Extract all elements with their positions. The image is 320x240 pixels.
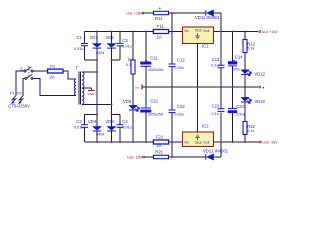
wire IC2 gnd pin (197, 87, 199, 132)
svg-text:IC1: IC1 (202, 44, 209, 49)
wire R21 to VD21 (169, 156, 206, 158)
svg-text:VD2: VD2 (106, 35, 115, 40)
resistor R21 (145, 149, 169, 158)
svg-text:VD3: VD3 (106, 119, 115, 124)
regulator IC1 7815 (183, 27, 214, 49)
capacitor C1 (74, 32, 88, 61)
port Uo2 -15V (259, 141, 261, 143)
wire F1 to transformer primary top (63, 71, 76, 79)
diode VD1 (90, 32, 102, 127)
transformer T (74, 65, 84, 104)
svg-text:0.01u: 0.01u (74, 47, 84, 51)
port Uo1 +15V (259, 31, 261, 33)
wire P1 to switch (16, 71, 24, 96)
wire seg VD3-C4 (112, 114, 121, 116)
wire R11 to VD11 (169, 12, 206, 14)
svg-text:C12: C12 (177, 58, 185, 63)
svg-text:Vout: Vout (203, 141, 209, 145)
svg-text:C2: C2 (76, 119, 82, 124)
svg-text:T: T (76, 65, 79, 70)
svg-text:5404: 5404 (96, 133, 104, 137)
capacitor C11 (141, 32, 165, 88)
capacitor C14 (228, 32, 243, 88)
port mid right (259, 86, 261, 88)
svg-text:Ua1 +18V: Ua1 +18V (126, 11, 143, 15)
resistor R1 (126, 32, 135, 106)
svg-text:VD4: VD4 (88, 119, 97, 124)
svg-text:0.33u: 0.33u (175, 66, 185, 70)
svg-text:2A: 2A (157, 143, 162, 148)
connector P1 (10, 91, 16, 104)
svg-text:0.01u: 0.01u (74, 125, 84, 129)
connector P2 (17, 91, 23, 104)
capacitor C3 (117, 32, 132, 61)
wire seg VD2-C3 (112, 59, 121, 61)
svg-text:5.1k: 5.1k (247, 47, 254, 51)
diode VD11 (195, 10, 221, 20)
svg-text:C11: C11 (150, 55, 158, 60)
svg-text:Vout: Vout (203, 29, 209, 33)
regulator IC2 7915 (183, 124, 214, 147)
svg-text:C21: C21 (150, 99, 158, 104)
ground at center tap (88, 88, 95, 96)
wire top rail (85, 31, 183, 33)
svg-text:F11: F11 (157, 24, 165, 29)
wire VD11 corner down (220, 13, 222, 66)
svg-text:C1: C1 (76, 35, 82, 40)
svg-text:VD11 IN4001: VD11 IN4001 (195, 15, 221, 20)
svg-text:IC2: IC2 (202, 124, 209, 129)
diode VD2 (106, 32, 116, 127)
diode VD3 (106, 119, 116, 142)
wire switch pole1 to F1 (33, 70, 48, 72)
wire secondary bottom to VD3 column (82, 103, 112, 105)
LED VD22 (241, 87, 266, 122)
wire P2 to switch (23, 78, 25, 95)
svg-text:C3: C3 (122, 38, 128, 43)
capacitor C23 (212, 104, 225, 117)
svg-text:7815: 7815 (195, 29, 202, 33)
svg-text:Uo2 -15V: Uo2 -15V (262, 141, 278, 145)
wire seg C1-VD1 (85, 59, 98, 61)
capacitor C12 (169, 58, 186, 110)
capacitor C22 (169, 104, 186, 157)
svg-text:F21: F21 (156, 135, 164, 140)
svg-text:out: out (135, 85, 139, 89)
svg-text:Uo1 +15V: Uo1 +15V (262, 30, 279, 34)
svg-text:VD12: VD12 (255, 72, 266, 77)
svg-text:5.1k: 5.1k (247, 129, 254, 133)
wire IC1 gnd pin (197, 44, 199, 88)
fuse F1 (48, 64, 63, 79)
svg-text:0.01u: 0.01u (122, 125, 132, 129)
fuse F21 (153, 135, 168, 149)
svg-text:0.01u: 0.01u (122, 44, 132, 48)
svg-text:VD22: VD22 (255, 99, 266, 104)
fuse F11 (153, 24, 168, 40)
wire output rail bottom (214, 141, 260, 143)
svg-text:CT5A/250V: CT5A/250V (8, 103, 30, 108)
capacitor C4 (117, 115, 132, 143)
diode VD4 (88, 119, 101, 142)
wire secondary top to VD1 column (82, 71, 97, 73)
resistor R11 (144, 8, 169, 21)
svg-text:2200u/5A: 2200u/5A (148, 68, 164, 72)
switch S (20, 66, 33, 79)
LED VD12 (241, 70, 266, 87)
svg-text:2A: 2A (50, 75, 55, 80)
svg-text:VD21 IN4001: VD21 IN4001 (203, 149, 229, 154)
LED VD5 (123, 99, 139, 142)
wire secondary center tap (82, 87, 92, 89)
svg-text:C4: C4 (122, 119, 128, 124)
capacitor C13 (211, 32, 224, 109)
svg-text:R11: R11 (155, 16, 163, 21)
svg-text:P2: P2 (17, 91, 22, 96)
svg-text:100u: 100u (236, 112, 244, 116)
svg-text:2A: 2A (157, 35, 162, 40)
wire output rail top (214, 31, 259, 33)
svg-text:0.1u: 0.1u (211, 64, 218, 68)
wire bottom rail (85, 141, 183, 143)
capacitor C2 (74, 115, 88, 143)
svg-text:Vin: Vin (184, 29, 189, 33)
svg-text:7915: 7915 (195, 141, 202, 145)
svg-text:VD5: VD5 (123, 99, 132, 104)
wire seg C2-VD4 (85, 114, 98, 116)
svg-text:R21: R21 (155, 149, 163, 154)
svg-text:C23: C23 (212, 104, 220, 109)
wire VD21 corner up (220, 113, 222, 157)
svg-text:0.1u: 0.1u (212, 112, 219, 116)
resistor R22 (243, 122, 256, 143)
wire switch pole2 to transformer primary bottom (33, 78, 76, 95)
wire branch column x172 top (171, 13, 173, 64)
svg-text:2200u/5A: 2200u/5A (148, 113, 164, 117)
svg-text:Ua2 -18V: Ua2 -18V (127, 155, 143, 159)
svg-text:S: S (20, 66, 23, 71)
svg-text:C22: C22 (177, 104, 185, 109)
svg-text:C13: C13 (212, 57, 220, 62)
svg-text:P1: P1 (10, 91, 15, 96)
svg-text:C14: C14 (235, 54, 243, 59)
svg-text:GND: GND (88, 92, 94, 96)
svg-text:100u: 100u (232, 68, 240, 72)
diode VD21 (203, 149, 229, 161)
svg-text:C24: C24 (236, 104, 244, 109)
svg-text:Vin: Vin (184, 141, 189, 145)
resistor R12 (243, 32, 256, 71)
capacitor C21 (141, 87, 164, 142)
wire mid rail (143, 86, 258, 88)
wire branch column x172 bottom (171, 142, 173, 157)
capacitor C24 (228, 87, 245, 142)
svg-text:0.33u: 0.33u (175, 113, 185, 117)
svg-text:5404: 5404 (96, 51, 104, 55)
